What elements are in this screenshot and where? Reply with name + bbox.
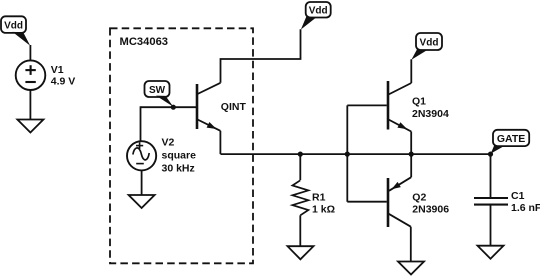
- ground (V1): [17, 120, 43, 133]
- wire QINT collector up and over to Vdd: [221, 29, 301, 83]
- node R1 junction dot: [298, 152, 303, 157]
- flag Vdd (top middle, on QINT collector): [301, 2, 331, 30]
- voltage source V2: [127, 141, 156, 170]
- ground (R1): [288, 246, 314, 259]
- svg-text:SW: SW: [149, 85, 166, 96]
- svg-text:V2: V2: [162, 137, 175, 149]
- wire QINT base: [141, 106, 197, 108]
- svg-text:Vdd: Vdd: [4, 21, 23, 32]
- node base junction dot: [345, 152, 350, 157]
- transistor Q2 (PNP 2N3906): [388, 177, 411, 227]
- svg-text:R1: R1: [312, 192, 326, 204]
- svg-text:GATE: GATE: [497, 133, 525, 145]
- svg-text:1.6 nF: 1.6 nF: [511, 202, 540, 214]
- svg-text:1 kΩ: 1 kΩ: [312, 204, 335, 216]
- svg-text:C1: C1: [511, 190, 525, 202]
- ground (C1): [478, 246, 504, 259]
- wire Q1 base: [347, 104, 387, 106]
- svg-text:2N3906: 2N3906: [412, 204, 449, 216]
- wire output rail: [221, 153, 491, 155]
- wire Vdd flag to V1 top: [29, 45, 31, 61]
- capacitor C1: [474, 198, 508, 205]
- wire Q1 collector to Vdd: [410, 59, 412, 83]
- node SW junction dot: [171, 105, 176, 110]
- ground (V2): [129, 195, 155, 208]
- wire R1 to ground: [299, 215, 301, 246]
- label R1 1 kohm: [312, 192, 335, 216]
- svg-text:30 kHz: 30 kHz: [162, 162, 195, 174]
- node emitters junction dot: [409, 152, 414, 157]
- wire V2 bottom to ground: [141, 170, 143, 195]
- wire rail down to C1: [490, 154, 492, 198]
- ground (Q2): [398, 262, 424, 275]
- label V2 square 30 kHz: [162, 137, 197, 175]
- wire rail down to R1: [299, 154, 301, 180]
- flag Vdd (on Q1 collector): [411, 33, 442, 60]
- label C1 1.6 nF: [511, 190, 540, 214]
- svg-text:2N3904: 2N3904: [412, 108, 449, 120]
- node GATE junction dot: [488, 152, 493, 157]
- wire Q2 collector to ground: [410, 227, 412, 262]
- label Q2 2N3906: [412, 192, 449, 216]
- voltage source V1: [16, 60, 46, 90]
- svg-text:Q1: Q1: [412, 96, 426, 108]
- svg-text:MC34063: MC34063: [120, 36, 169, 48]
- flag Vdd (left, on V1): [1, 16, 30, 45]
- wire Q1 emitter down to rail: [410, 132, 412, 155]
- wire Q2 emitter up to rail: [410, 154, 412, 177]
- label Q1 2N3904: [412, 96, 449, 120]
- wire Q2 base: [347, 201, 387, 203]
- svg-text:4.9 V: 4.9 V: [51, 76, 76, 88]
- flag GATE: [491, 130, 530, 154]
- svg-text:square: square: [162, 149, 197, 161]
- flag SW: [145, 81, 174, 107]
- svg-text:Vdd: Vdd: [309, 5, 328, 16]
- resistor R1: [292, 180, 308, 215]
- svg-text:V1: V1: [51, 64, 64, 76]
- svg-text:Vdd: Vdd: [420, 37, 439, 48]
- wire QINT emitter down to output rail: [219, 131, 221, 154]
- svg-text:QINT: QINT: [221, 101, 247, 113]
- transistor QINT (NPN): [197, 83, 221, 131]
- wire bases vertical: [346, 105, 348, 201]
- wire C1 to ground: [490, 205, 492, 246]
- wire V1 bottom to ground: [29, 90, 31, 120]
- svg-text:Q2: Q2: [412, 192, 426, 204]
- wire SW node down to V2: [140, 106, 142, 142]
- label V1 4.9 V: [51, 64, 76, 88]
- transistor Q1 (NPN 2N3904): [388, 81, 411, 132]
- MC34063 dashed box: [110, 28, 253, 263]
